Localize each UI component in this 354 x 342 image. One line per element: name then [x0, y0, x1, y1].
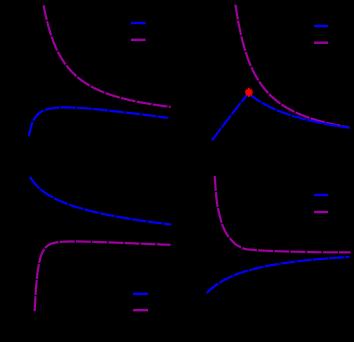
legend BL blue line sample: [133, 293, 148, 295]
curve TR blue rise to peak: [212, 93, 249, 141]
legend BR magenta line sample: [314, 211, 328, 213]
curve TR blue fall from peak: [249, 94, 350, 128]
legend TR magenta line sample: [314, 42, 328, 44]
curve TL blue (1/x + linear): [29, 107, 168, 136]
legend BL magenta line sample: [133, 309, 148, 311]
legend TL blue line sample: [131, 22, 146, 24]
marker: red asterisk at TR blue peak: [245, 88, 253, 97]
curve BL magenta (steep saturation): [35, 242, 171, 312]
curve BR magenta (steep decay then flat): [215, 176, 351, 252]
curve BL blue (slow decay): [30, 177, 171, 225]
legend TL magenta line sample: [131, 39, 146, 41]
legend TR blue line sample: [314, 25, 328, 27]
curve TL magenta (1/x decay): [44, 5, 171, 107]
legend BR blue line sample: [314, 194, 328, 196]
curve TR magenta (1/x decay): [235, 5, 349, 128]
curve BR blue (saturating growth): [207, 257, 350, 293]
